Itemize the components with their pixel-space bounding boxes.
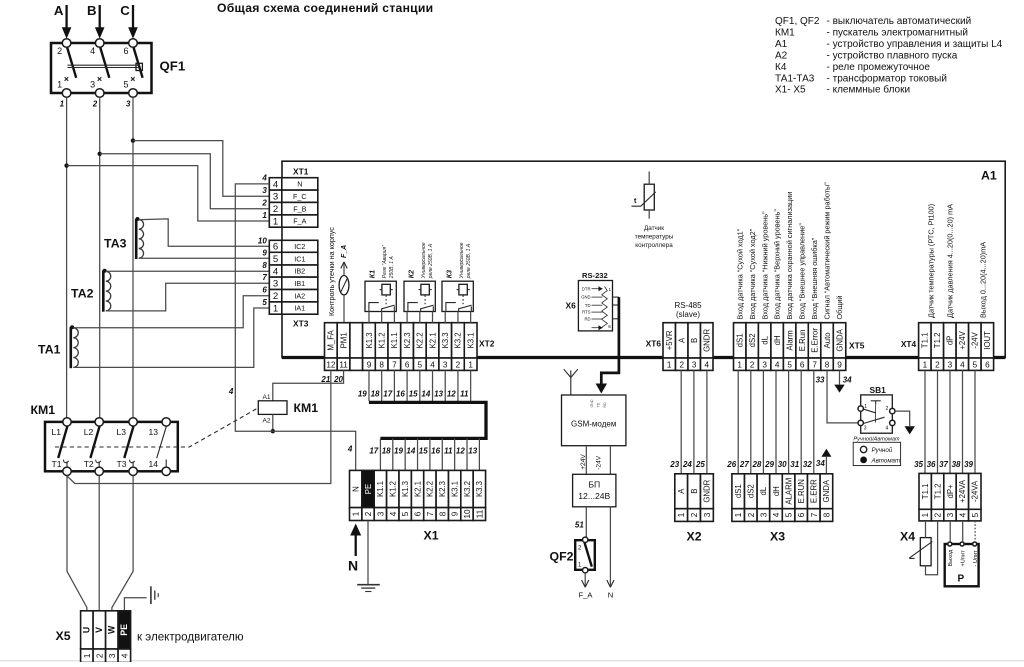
svg-text:ХТ6: ХТ6 [646,339,662,349]
svg-text:T1.1: T1.1 [921,333,930,349]
svg-text:температуры: температуры [635,233,674,240]
wire 34 link up to X3 GNDA [821,449,831,457]
svg-text:T1.2: T1.2 [933,333,942,349]
wire 20 PM1 to coil A1 [273,370,344,400]
svg-text:3: 3 [946,512,955,517]
X6 bracket wires [613,296,619,298]
svg-text:V: V [94,627,104,633]
wires XT6 to X2 [680,370,682,473]
svg-text:А1: А1 [263,394,271,401]
svg-text:10: 10 [463,509,472,519]
svg-text:Вход датчика охранной сигнализ: Вход датчика охранной сигнализации [785,192,794,320]
svg-text:L2: L2 [84,427,94,437]
svg-text:8: 8 [825,360,830,369]
svg-text:3: 3 [762,360,767,369]
svg-text:4: 4 [960,360,965,369]
svg-text:А1: А1 [981,169,997,183]
thick wire X6 to GSM modem [601,297,619,384]
svg-text:8: 8 [379,360,384,369]
svg-text:K1.1: K1.1 [390,332,399,348]
relay K2 [404,281,435,311]
svg-text:18: 18 [382,447,391,456]
svg-text:1: 1 [83,653,92,658]
svg-text:T1: T1 [52,459,62,469]
svg-text:3: 3 [126,100,131,109]
svg-text:250В, 1 А: 250В, 1 А [389,256,395,280]
svg-text:БП: БП [588,480,600,490]
svg-text:RTS: RTS [582,310,591,315]
svg-text:4: 4 [772,512,781,517]
wire phase C vertical [132,97,134,417]
svg-text:1: 1 [677,512,686,517]
svg-text:+5VR: +5VR [665,330,674,350]
wire T1 to X5 U [67,476,87,612]
svg-text:Ручной: Ручной [872,447,893,454]
svg-text:2: 2 [747,512,756,517]
svg-text:1: 1 [921,512,930,517]
svg-text:N: N [297,180,302,189]
circuit breaker QF1 [51,43,152,93]
svg-text:dL: dL [759,486,768,495]
svg-text:T1.2: T1.2 [933,484,942,500]
svg-text:K1.2: K1.2 [378,332,387,348]
svg-text:5: 5 [787,360,792,369]
earth symbol at X1 [357,584,380,586]
wire phase B vertical [99,97,101,417]
svg-text:Х3: Х3 [770,530,785,544]
svg-text:dH: dH [773,335,782,345]
pressure sensor P [945,544,979,586]
svg-text:3: 3 [273,192,278,203]
svg-text:K2.1: K2.1 [413,481,422,497]
svg-text:E.Run: E.Run [798,330,807,352]
svg-text:K2.3: K2.3 [403,332,412,348]
svg-text:4: 4 [273,179,279,190]
terminal block X2 [675,474,688,509]
svg-text:Выход 0...20(4...20)mA: Выход 0...20(4...20)mA [979,242,988,318]
svg-text:2: 2 [456,360,461,369]
svg-text:5: 5 [262,298,267,307]
svg-text:3: 3 [443,360,448,369]
svg-text:2: 2 [261,198,267,207]
wire F_B branch [100,154,270,209]
svg-text:K1.3: K1.3 [401,481,410,497]
svg-text:1: 1 [60,100,65,109]
svg-text:В: В [87,3,97,18]
svg-text:QF1, QF2: QF1, QF2 [775,16,820,27]
svg-text:L1: L1 [52,427,62,437]
svg-text:9: 9 [837,360,842,369]
svg-text:28: 28 [751,460,761,469]
svg-text:IOUT: IOUT [983,331,992,350]
svg-text:29: 29 [764,460,774,469]
svg-text:-24V: -24V [595,455,602,470]
wires X4 to P [949,521,951,542]
svg-text:ХТ3: ХТ3 [293,319,309,329]
svg-text:14: 14 [421,390,430,399]
svg-text:8: 8 [822,512,831,517]
svg-text:20: 20 [333,375,343,384]
svg-text:K3.3: K3.3 [441,332,450,348]
svg-text:А1: А1 [775,39,788,50]
contactor coil KM1 [258,401,287,415]
svg-text:3: 3 [376,511,385,516]
svg-text:1: 1 [262,211,267,220]
svg-text:dP: dP [946,336,955,346]
svg-text:2: 2 [750,360,755,369]
svg-text:RD: RD [603,402,607,408]
svg-text:Общий: Общий [835,295,844,319]
terminal block XT2 [325,323,338,358]
svg-text:ТА1-ТА3: ТА1-ТА3 [775,73,815,84]
svg-text:27: 27 [739,460,749,469]
wire 4 neutral run [235,184,355,471]
svg-text:+Uпит: +Uпит [960,550,966,566]
svg-text:35: 35 [914,460,923,469]
svg-text:1: 1 [609,287,612,292]
svg-text:КМ1: КМ1 [294,401,319,415]
svg-text:13: 13 [468,447,477,456]
svg-text:13: 13 [149,427,159,437]
svg-text:E.Error: E.Error [810,328,819,353]
svg-text:К2: К2 [408,270,415,278]
wires XT4 to X4 [924,370,926,473]
svg-text:Вход датчика “Верхний уровень”: Вход датчика “Верхний уровень” [773,209,782,320]
svg-text:А2: А2 [263,418,271,425]
wire TA2 to IB1 [106,283,269,311]
svg-text:11: 11 [444,447,453,456]
svg-text:39: 39 [964,460,973,469]
svg-text:9: 9 [451,511,460,516]
svg-text:M_FA: M_FA [327,329,336,350]
svg-text:24: 24 [682,460,692,469]
svg-text:1: 1 [57,80,62,90]
svg-text:3: 3 [759,512,768,517]
svg-text:Датчик давления 4...20(0...20): Датчик давления 4...20(0...20) mA [946,204,955,318]
svg-text:Ручной/Автомат: Ручной/Автомат [853,436,900,443]
svg-text:dP+: dP+ [946,484,955,499]
svg-text:Вход “Внешнее управление”: Вход “Внешнее управление” [798,223,807,320]
svg-text:С: С [120,3,130,18]
antenna [564,369,578,395]
svg-text:N: N [352,486,361,492]
svg-text:- клеммные блоки: - клеммные блоки [827,84,911,96]
svg-text:dL: dL [761,335,770,344]
svg-text:30: 30 [778,460,787,469]
svg-text:Общая схема соединений станции: Общая схема соединений станции [217,1,433,15]
svg-text:4: 4 [775,360,780,369]
wire TA1 to IA2 [73,296,269,328]
wire 21 M_FA to KM1 T1 [67,370,331,483]
wire coil A2 to N [272,414,274,431]
svg-text:5: 5 [971,512,980,517]
svg-text:6: 6 [985,360,990,369]
svg-text:1: 1 [667,360,672,369]
svg-text:7: 7 [262,273,267,282]
svg-text:5: 5 [785,512,794,517]
svg-text:8: 8 [262,261,267,270]
svg-text:TD: TD [585,303,591,308]
svg-text:3: 3 [273,279,278,290]
svg-text:ХТ4: ХТ4 [901,339,917,349]
svg-text:Датчик: Датчик [644,225,664,232]
svg-text:4: 4 [273,266,279,277]
svg-text:Контроль утечки на корпус: Контроль утечки на корпус [327,227,336,316]
svg-text:13: 13 [434,390,443,399]
svg-text:K3.2: K3.2 [454,332,463,348]
earth symbol at X5 [150,586,152,604]
svg-text:Вход датчика “Нижний уровень”: Вход датчика “Нижний уровень” [760,211,769,320]
current transformer TA1 [70,327,73,368]
svg-text:14: 14 [406,447,415,456]
svg-text:34: 34 [843,376,852,385]
svg-text:K3.2: K3.2 [463,481,472,497]
svg-text:11: 11 [475,509,484,518]
svg-text:6: 6 [262,286,267,295]
svg-text:4: 4 [886,426,889,432]
svg-text:-24V: -24V [971,331,980,348]
wire T2 to X5 V [98,476,100,612]
svg-text:Вход “Внешняя ошибка”: Вход “Внешняя ошибка” [810,237,819,319]
svg-text:DTR: DTR [582,286,591,291]
temperature sensor at X4 [920,538,931,566]
power supply BP 12-24V [573,474,616,507]
wire TA3 to IC2 [139,219,270,246]
wires XT5 to X3 [737,370,739,473]
svg-text:K2.2: K2.2 [416,332,425,348]
svg-text:11: 11 [460,390,469,399]
svg-text:4: 4 [120,653,129,658]
contactor KM1 [45,418,178,476]
svg-text:Alarm: Alarm [785,330,794,350]
svg-text:2: 2 [934,512,943,517]
controller A1 box [282,161,1005,357]
svg-text:B: B [690,338,699,343]
svg-text:4: 4 [347,444,353,453]
svg-text:4: 4 [228,387,234,396]
svg-text:К3: К3 [446,270,453,278]
svg-text:2: 2 [57,46,62,56]
relay K1 [365,281,396,311]
wires XT2 outputs 19-11 [368,370,370,401]
junction phase C branch [131,138,135,142]
svg-text:Реле “Авария”: Реле “Авария” [382,245,388,278]
thick wire bundle [369,402,486,438]
svg-text:к электродвигателю: к электродвигателю [137,631,244,644]
svg-text:1: 1 [734,512,743,517]
svg-text:(slave): (slave) [676,310,700,319]
svg-text:GNDR: GNDR [703,479,712,502]
svg-text:RD: RD [584,317,590,322]
svg-text:14: 14 [149,459,159,469]
svg-text:+24V: +24V [958,330,967,349]
svg-text:9: 9 [367,360,372,369]
svg-text:F_C: F_C [293,192,307,201]
scan edge line [0,660,1024,662]
terminal block X3 [732,474,745,509]
svg-text:Х1- Х5: Х1- Х5 [775,85,806,96]
svg-text:2: 2 [273,204,278,215]
svg-text:16: 16 [396,390,405,399]
svg-text:4: 4 [389,511,398,516]
switch SB1 [858,395,895,433]
svg-text:4: 4 [430,360,435,369]
svg-text:8: 8 [438,511,447,516]
svg-text:dH: dH [772,486,781,496]
wires to X1 11-19 [379,438,381,470]
wire TA3 to IC1 [139,257,270,259]
terminal block XT6 [663,323,676,358]
terminal block X4 [919,473,931,509]
svg-text:IC1: IC1 [294,254,305,263]
wires relay K1 to XT2 [368,312,370,323]
svg-text:Auto: Auto [823,332,832,349]
svg-text:23: 23 [669,460,679,469]
svg-text:Р: Р [958,574,965,585]
junction phase B branch [98,152,102,156]
svg-text:51: 51 [575,521,584,530]
svg-text:ТА3: ТА3 [104,237,127,251]
svg-text:17: 17 [383,390,392,399]
svg-text:А: А [54,3,64,18]
leakage sensor PM1 oval [339,276,349,295]
wire SB1 pin2 link [895,411,910,426]
svg-text:12...24В: 12...24В [578,491,610,501]
svg-text:6: 6 [797,512,806,517]
circuit breaker QF2 [575,540,595,570]
svg-text:ТА1: ТА1 [38,343,61,357]
svg-text:17: 17 [369,447,378,456]
svg-text:33: 33 [816,376,825,385]
svg-text:T2: T2 [84,459,94,469]
svg-text:IA2: IA2 [294,291,305,300]
svg-text:КМ1: КМ1 [31,403,56,417]
svg-text:dS2: dS2 [747,484,756,498]
svg-text:К1: К1 [369,270,376,278]
svg-text:1: 1 [737,360,742,369]
svg-text:- пускатель электромагнитный: - пускатель электромагнитный [827,28,968,39]
svg-text:7: 7 [812,360,817,369]
svg-text:- реле промежуточное: - реле промежуточное [827,62,931,73]
svg-text:Автомат: Автомат [871,457,901,464]
svg-text:15: 15 [419,447,428,456]
svg-text:- Uпит: - Uпит [973,550,979,567]
svg-text:dS1: dS1 [736,333,745,347]
X6 cable zigzag [602,287,608,328]
svg-text:ХТ5: ХТ5 [849,341,865,351]
terminal block X1 [350,470,362,507]
svg-text:IB2: IB2 [294,267,305,276]
svg-text:IC2: IC2 [294,242,305,251]
svg-text:Вход датчика “Сухой ход1”: Вход датчика “Сухой ход1” [735,228,744,319]
svg-text:ALARM: ALARM [784,478,793,505]
svg-text:4: 4 [261,174,267,183]
svg-text:38: 38 [952,460,961,469]
svg-text:N: N [348,558,358,574]
svg-text:2: 2 [935,360,940,369]
terminal block XT4 [919,323,932,358]
svg-text:1: 1 [923,360,928,369]
controller temperature sensor [644,184,654,210]
svg-text:2: 2 [690,512,699,517]
svg-text:32: 32 [803,460,812,469]
relay K3 [442,281,473,311]
svg-text:A: A [677,488,686,494]
svg-text:1: 1 [864,404,867,410]
svg-text:F_A: F_A [579,591,594,600]
wire TA2 to IB2 [106,270,269,272]
svg-text:4: 4 [90,46,95,56]
terminal block XT5 [734,323,746,358]
svg-text:TD: TD [597,402,601,407]
GSM modem box [562,395,626,446]
wires relay K2 to XT2 [406,312,408,323]
svg-text:F_A: F_A [341,245,348,258]
svg-text:5: 5 [273,254,278,265]
wires GSM to power supply [585,446,587,475]
svg-text:A: A [678,337,687,343]
svg-text:PM1: PM1 [339,332,348,348]
svg-text:1: 1 [352,511,361,516]
svg-text:GND: GND [590,399,594,407]
svg-text:Х2: Х2 [687,530,702,544]
svg-text:GSM-модем: GSM-модем [571,420,616,429]
svg-text:реле 250В, 1 А: реле 250В, 1 А [428,243,434,279]
svg-text:L3: L3 [117,427,127,437]
wire X1 PE to earth [367,521,369,585]
svg-text:2: 2 [92,100,98,109]
svg-text:PE: PE [119,624,129,636]
svg-text:GND: GND [581,295,590,300]
svg-text:2: 2 [273,291,278,302]
svg-text:2: 2 [886,406,889,412]
svg-text:34: 34 [816,459,825,468]
svg-text:-24VA: -24VA [971,480,980,502]
current transformer TA3 [135,219,138,259]
svg-text:19: 19 [394,447,403,456]
svg-text:2: 2 [95,653,104,658]
svg-text:15: 15 [409,390,418,399]
svg-text:3: 3 [692,360,697,369]
wire T3 to X5 W [112,476,133,612]
svg-text:- устройство плавного пуска: - устройство плавного пуска [827,50,958,61]
svg-text:- выключатель автоматический: - выключатель автоматический [827,16,972,27]
svg-text:T3: T3 [117,459,127,469]
svg-text:GNDA: GNDA [822,479,831,502]
svg-text:6: 6 [800,360,805,369]
svg-text:6: 6 [405,360,410,369]
wire 51 [585,507,587,537]
svg-text:Х1: Х1 [424,529,439,543]
svg-text:37: 37 [939,460,948,469]
wire TA1 to IA1 [73,308,269,367]
svg-text:6: 6 [273,242,278,253]
wire BP to N [609,507,611,587]
svg-text:IB1: IB1 [294,279,305,288]
svg-text:K1.3: K1.3 [365,332,374,348]
wire X5 PE to earth [124,598,146,612]
wire F_C branch [133,141,269,197]
svg-text:А2: А2 [775,50,788,61]
svg-text:T1.1: T1.1 [921,484,930,500]
svg-text:3: 3 [703,512,712,517]
svg-text:dS1: dS1 [734,484,743,498]
svg-text:16: 16 [431,447,440,456]
svg-text:1: 1 [468,360,473,369]
current transformer TA2 [102,271,105,312]
svg-text:Выход: Выход [948,549,954,566]
svg-text:5: 5 [418,360,423,369]
